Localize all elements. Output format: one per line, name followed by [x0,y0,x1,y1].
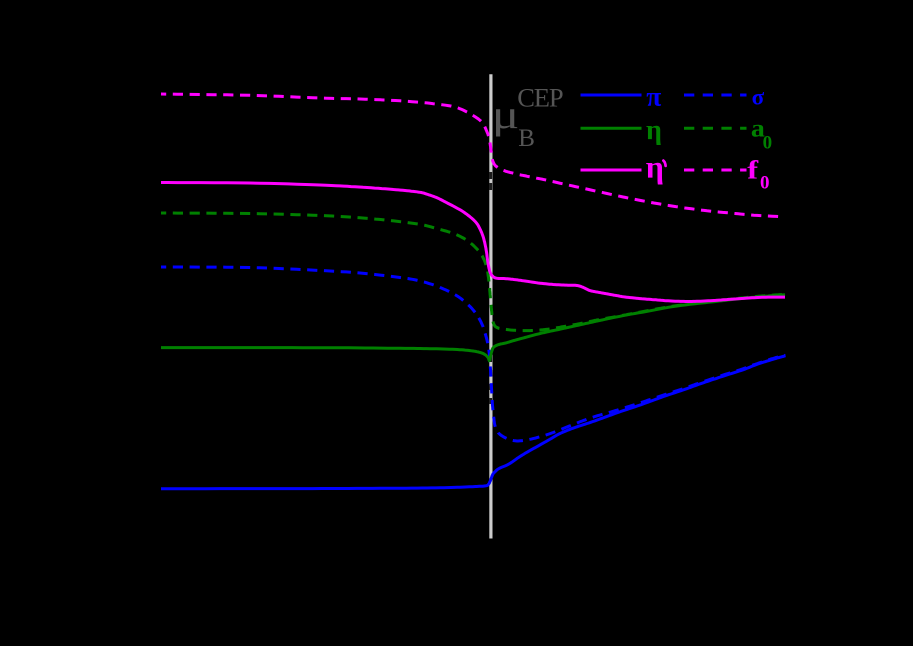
svg-text:0: 0 [763,132,773,153]
svg-text:μ: μ [492,92,519,136]
svg-text:B: B [518,125,535,152]
svg-text:0: 0 [760,172,770,193]
svg-text:η: η [646,148,664,184]
svg-text:π: π [646,81,661,112]
svg-text:η: η [646,115,662,146]
svg-text:f: f [747,156,759,184]
svg-text:CEP: CEP [517,82,563,112]
svg-text:σ: σ [752,84,765,109]
